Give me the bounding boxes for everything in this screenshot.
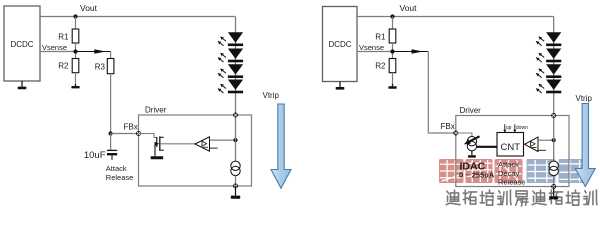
ground (IDAC) <box>468 151 476 158</box>
svg-text:0 ~ 255uA: 0 ~ 255uA <box>459 170 495 179</box>
svg-text:R1: R1 <box>58 33 69 42</box>
LED D2 (right) <box>536 49 561 63</box>
pin LED entering driver (right) <box>551 113 556 118</box>
svg-text:down: down <box>516 125 528 131</box>
wire Vsense (right) <box>357 51 393 53</box>
watermark slogan char 9 <box>584 190 597 205</box>
IDAC adjustable current source <box>456 133 480 151</box>
wire U2 input to LED node (right) <box>538 139 554 141</box>
svg-text:R2: R2 <box>375 62 386 71</box>
svg-text:Attack: Attack <box>498 160 519 169</box>
svg-text:DCDC: DCDC <box>328 40 351 49</box>
ground (DCDC right) <box>336 82 345 90</box>
svg-text:Vout: Vout <box>80 3 98 13</box>
watermark slogan char 8 <box>566 190 579 205</box>
wire R2 to ground <box>75 73 77 86</box>
pin FBx (right driver) <box>453 131 458 136</box>
wire to R3 <box>110 52 112 59</box>
resistor R3 <box>107 59 114 74</box>
node LED/U2 junction (right) <box>552 138 556 142</box>
svg-text:10uF: 10uF <box>84 150 106 161</box>
pin driver bottom (right) <box>551 184 556 189</box>
wire R1 to R2 (right) <box>392 43 394 59</box>
Vtrip left annotation arrow (blue, pointing down) <box>271 104 291 188</box>
down control wire+arrow <box>513 124 516 133</box>
ground (LED return, right) <box>549 187 558 200</box>
svg-text:Decay: Decay <box>498 169 520 178</box>
svg-text:FBx: FBx <box>124 123 138 132</box>
svg-text:up: up <box>506 125 512 131</box>
svg-text:Vtrip: Vtrip <box>263 91 280 100</box>
watermark logo char 3 <box>495 159 523 183</box>
LED D3 (left) <box>218 64 243 78</box>
watermark slogan char 7 <box>549 190 562 204</box>
ground (Q1 source) <box>151 156 164 159</box>
resistor R1 (right) <box>389 29 396 43</box>
resistor R1 <box>72 29 79 43</box>
wire below current source <box>235 176 237 186</box>
ground (LED return, left) <box>231 186 240 199</box>
current source I1 (left) (two overlapping circles) <box>231 161 240 175</box>
svg-text:R3: R3 <box>95 63 106 72</box>
wire R2 to ground (right) <box>392 73 394 87</box>
svg-text:R1: R1 <box>375 33 386 42</box>
watermark logo char 4 <box>527 159 556 183</box>
wire Vout (DCDC to LED string) <box>40 16 236 18</box>
svg-text:Attack: Attack <box>106 164 127 173</box>
LED D3 (right) <box>536 64 561 78</box>
wire Vsense to FBx (right) <box>428 52 456 134</box>
Vtrip right annotation arrow (blue, pointing down) <box>575 104 595 187</box>
ground (R2 right) <box>388 84 396 89</box>
ground (R2) <box>71 84 79 88</box>
svg-text:CNT: CNT <box>501 142 521 153</box>
stub U1 second input <box>210 147 218 149</box>
wire Vout to R1 (right) <box>392 17 394 30</box>
Driver block (left) <box>139 115 252 186</box>
wire below current source (right) <box>553 176 555 187</box>
DCDC converter block (right) <box>323 7 358 82</box>
svg-text:Vsense: Vsense <box>42 43 67 52</box>
LED D1 (right) <box>536 32 561 46</box>
wire CNT to op-amp U2 <box>524 143 525 145</box>
watermark logo char 2 <box>466 159 493 183</box>
svg-text:Vout: Vout <box>400 3 418 13</box>
wire Vout (right) <box>357 16 554 18</box>
wire to FBx pin <box>111 133 139 135</box>
svg-text:R2: R2 <box>58 62 69 71</box>
svg-text:Release: Release <box>498 178 526 187</box>
pin driver bottom (left) <box>233 184 238 189</box>
wire LED string (right) <box>553 17 555 162</box>
DCDC converter block <box>4 6 40 81</box>
watermark slogan char 2 <box>463 190 476 204</box>
pin LED entering driver (left) <box>233 113 238 118</box>
wire Vsense tap with arrow to R3 <box>76 51 111 53</box>
LED D4 (left) <box>218 80 243 94</box>
op-amp U1 <box>195 137 210 151</box>
stub U2 second input <box>538 149 546 151</box>
wire Q1 to op-amp U1 output <box>160 143 195 145</box>
svg-text:FBx: FBx <box>441 122 455 131</box>
node LED/U1 junction <box>233 138 237 142</box>
node Vout junction (right) <box>390 14 394 18</box>
wire Vout to R1 <box>75 17 77 30</box>
current source I2 (right) (two overlapping circles) <box>549 161 558 175</box>
ground (DCDC) <box>18 81 27 89</box>
LED D2 (left) <box>218 49 243 63</box>
capacitor C1 10uF <box>107 134 117 160</box>
op-amp U2 <box>525 137 539 151</box>
transistor Q1 (NMOS) <box>139 134 164 157</box>
svg-text:Driver: Driver <box>460 106 482 115</box>
resistor R2 <box>72 59 79 73</box>
node Vout junction <box>73 14 77 18</box>
Driver block (right) <box>456 116 569 187</box>
watermark slogan char 3 <box>480 190 493 205</box>
watermark slogan char 4 <box>498 190 511 205</box>
counter block CNT <box>497 133 524 157</box>
arrowhead (Vsense tap) <box>94 49 106 53</box>
svg-text:DCDC: DCDC <box>10 40 33 49</box>
watermark logo char 5 <box>559 159 587 183</box>
watermark logo char 1 <box>439 159 464 183</box>
arrowhead (Vsense tap right) <box>412 49 424 53</box>
resistor R2 (right) <box>389 59 396 73</box>
node FBx/cap junction <box>109 131 113 135</box>
watermark slogan char 6 <box>532 190 546 205</box>
wire IDAC to CNT (thick) <box>477 146 497 148</box>
watermark slogan char 5 <box>516 191 528 206</box>
node Vsense junction <box>73 49 77 53</box>
pin FBx (left driver) <box>136 131 141 136</box>
up control wire+arrow <box>503 124 506 133</box>
wire Vsense (DCDC to divider) <box>40 51 76 53</box>
svg-text:Driver: Driver <box>145 106 167 115</box>
svg-text:Vtrip: Vtrip <box>576 94 593 103</box>
svg-text:Vsense: Vsense <box>359 43 384 52</box>
LED D1 (left) <box>218 32 243 46</box>
wire Vsense tap with arrow (right) <box>393 51 429 53</box>
LED D4 (right) <box>536 80 561 94</box>
wire R1 to R2 <box>75 43 77 59</box>
svg-text:Release: Release <box>106 173 134 182</box>
wire LED string (left) <box>235 17 237 162</box>
wire U1 input to LED cathode node <box>210 139 236 141</box>
node Vsense junction (right) <box>390 49 394 53</box>
watermark slogan char 1 <box>446 190 460 205</box>
wire R3 to FBx node <box>110 74 112 134</box>
